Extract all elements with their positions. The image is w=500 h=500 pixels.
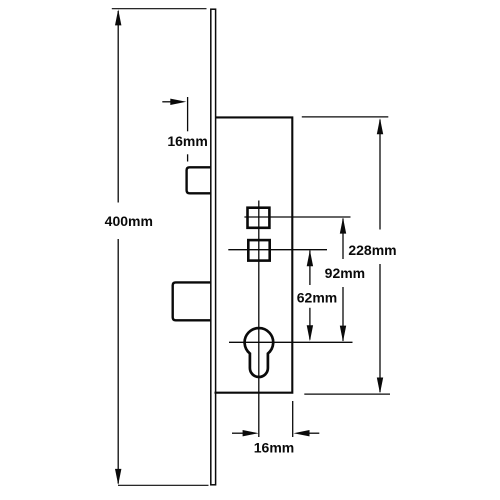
16mm bottom right arrow bbox=[304, 432, 320, 434]
16mm top reference line bbox=[187, 97, 189, 131]
arrowhead 228mm up bbox=[377, 118, 383, 134]
dimension 62mm line bbox=[309, 251, 311, 286]
vertical centerline bbox=[258, 201, 260, 438]
case top extension line bbox=[302, 116, 389, 118]
lower square center line bbox=[228, 249, 327, 251]
svg-text:62mm: 62mm bbox=[297, 289, 337, 305]
bottom extension line bbox=[118, 484, 209, 486]
svg-text:16mm: 16mm bbox=[254, 440, 294, 456]
spindle square lower bbox=[248, 240, 269, 261]
arrowhead 92mm up bbox=[340, 218, 346, 234]
arrowhead 228mm down bbox=[377, 378, 383, 394]
dimension 228mm line bbox=[379, 120, 381, 230]
arrowhead 400mm up bbox=[115, 9, 121, 25]
hook bolt cutout bbox=[173, 282, 211, 320]
case bottom extension line bbox=[304, 393, 390, 395]
dimension 92mm line bbox=[342, 219, 344, 260]
arrowhead 16mm top right bbox=[170, 99, 186, 105]
arrowhead 92mm down bbox=[340, 326, 346, 342]
cylinder center line bbox=[229, 341, 353, 343]
arrowhead 62mm up bbox=[307, 250, 313, 266]
dimension 16mm bottom reference line bbox=[292, 401, 294, 437]
svg-text:400mm: 400mm bbox=[105, 213, 153, 229]
dimension 16mm top arrow bbox=[162, 101, 176, 103]
spindle square upper bbox=[248, 208, 270, 228]
euro cylinder cutout bbox=[245, 328, 274, 377]
dimension 400mm line bbox=[117, 11, 119, 203]
latch cutout bbox=[187, 167, 211, 193]
top extension line bbox=[112, 8, 207, 10]
arrowhead 16mm bottom right bbox=[294, 430, 310, 436]
svg-text:228mm: 228mm bbox=[348, 242, 396, 258]
upper square center line bbox=[244, 216, 350, 218]
svg-text:92mm: 92mm bbox=[325, 265, 365, 281]
faceplate strip bbox=[211, 9, 216, 485]
lock body case bbox=[215, 117, 293, 392]
arrowhead 62mm down bbox=[307, 325, 313, 341]
svg-text:16mm: 16mm bbox=[167, 133, 207, 149]
arrowhead 16mm bottom left bbox=[243, 430, 259, 436]
arrowhead 400mm down bbox=[115, 469, 121, 485]
16mm bottom left arrow bbox=[232, 432, 248, 434]
